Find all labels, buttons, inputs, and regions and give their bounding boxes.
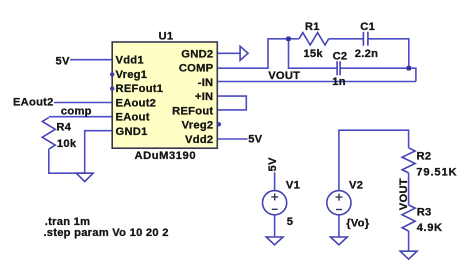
junction node COMP/R1/C2 bbox=[286, 37, 291, 42]
svg-text:.step param Vo 10 20 2: .step param Vo 10 20 2 bbox=[43, 227, 168, 239]
wire R4 bottom to ground bbox=[49, 149, 85, 173]
svg-text:VOUT: VOUT bbox=[398, 178, 410, 210]
resistor R3 bbox=[402, 205, 415, 231]
svg-text:V2: V2 bbox=[349, 180, 363, 192]
open pin circle Vreg1 bbox=[110, 72, 114, 76]
svg-text:C2: C2 bbox=[333, 50, 348, 62]
ground under V2 bbox=[331, 237, 348, 245]
svg-text:79.51K: 79.51K bbox=[416, 167, 457, 179]
wire R1 lead left bbox=[289, 38, 300, 40]
wire GND1 to ground bbox=[85, 131, 113, 174]
plus sign V1 bbox=[271, 193, 278, 200]
svg-text:Vdd1: Vdd1 bbox=[116, 55, 144, 67]
open pin circle REFout1 bbox=[110, 86, 114, 90]
svg-text:EAout: EAout bbox=[116, 112, 150, 124]
svg-text:-IN: -IN bbox=[198, 77, 214, 89]
svg-text:4.9K: 4.9K bbox=[417, 222, 443, 234]
ground under R3 bbox=[400, 251, 417, 259]
wire comp net EAout pin to R4 top bbox=[49, 116, 112, 118]
svg-text:EAout2: EAout2 bbox=[116, 97, 157, 109]
wire VOUT rail to -IN bbox=[217, 81, 416, 83]
wire Vdd2 to 5V label bbox=[217, 138, 247, 140]
minus sign V1 bbox=[272, 208, 278, 210]
svg-text:Vdd2: Vdd2 bbox=[185, 134, 213, 146]
svg-text:ADuM3190: ADuM3190 bbox=[135, 150, 197, 162]
svg-text:Vreg1: Vreg1 bbox=[116, 69, 148, 81]
wire V2 top riser and rail to R2 bbox=[339, 130, 409, 190]
capacitor C1 bbox=[363, 32, 368, 46]
wire R3 to ground bbox=[408, 231, 410, 251]
wire V2 bottom to ground bbox=[338, 215, 340, 237]
wire COMP to top rail bbox=[217, 39, 288, 68]
svg-text:C1: C1 bbox=[360, 21, 375, 33]
svg-text:5V: 5V bbox=[248, 134, 262, 146]
op-amp U1 ADuM3190 body bbox=[112, 42, 217, 148]
wire C2 right to junction bbox=[340, 67, 409, 69]
svg-text:R2: R2 bbox=[417, 150, 432, 162]
svg-text:U1: U1 bbox=[159, 31, 174, 43]
output port arrow at GND2 bbox=[240, 46, 248, 60]
svg-text:R3: R3 bbox=[417, 207, 432, 219]
wire C1 to right riser bbox=[368, 39, 409, 68]
svg-text:VOUT: VOUT bbox=[268, 70, 300, 82]
svg-text:REFout1: REFout1 bbox=[116, 83, 164, 95]
wire +IN to REFout loop bbox=[217, 96, 246, 110]
svg-text:5V: 5V bbox=[56, 55, 70, 67]
svg-text:EAout2: EAout2 bbox=[13, 96, 54, 108]
wire V1 bottom to ground bbox=[274, 215, 276, 237]
junction node C1/C2/VOUT bbox=[407, 66, 412, 71]
plus sign V2 bbox=[336, 194, 343, 201]
ground under R4/GND1 bbox=[76, 173, 93, 181]
svg-text:COMP: COMP bbox=[179, 63, 214, 75]
voltage source V2 bbox=[327, 191, 351, 215]
svg-text:Vreg2: Vreg2 bbox=[182, 120, 214, 132]
wire V1 top stub bbox=[274, 172, 276, 190]
svg-text:15k: 15k bbox=[303, 48, 323, 60]
resistor R1 bbox=[299, 33, 329, 45]
wire jog junction to VOUT rail bbox=[409, 68, 416, 81]
open pin circle Vreg2 bbox=[217, 122, 221, 126]
svg-text:GND2: GND2 bbox=[181, 48, 213, 60]
svg-text:10k: 10k bbox=[57, 138, 77, 150]
capacitor C2 bbox=[337, 61, 340, 75]
wire R1 to C1 bbox=[329, 38, 364, 40]
wire EAout2 label to pin bbox=[54, 102, 112, 104]
minus sign V2 bbox=[336, 209, 342, 211]
wire 5V to Vdd1 bbox=[70, 59, 112, 61]
wire C2 branch left bbox=[289, 39, 338, 68]
ground under V1 bbox=[266, 237, 283, 245]
voltage source V1 bbox=[263, 191, 287, 215]
svg-text:GND1: GND1 bbox=[116, 126, 148, 138]
svg-text:1n: 1n bbox=[332, 76, 346, 88]
resistor R4 bbox=[42, 118, 55, 150]
svg-text:2.2n: 2.2n bbox=[355, 48, 378, 60]
svg-text:R1: R1 bbox=[305, 21, 320, 33]
svg-text:5V: 5V bbox=[267, 157, 279, 171]
svg-text:5: 5 bbox=[287, 216, 293, 228]
svg-text:{Vo}: {Vo} bbox=[346, 218, 370, 230]
resistor R2 bbox=[402, 148, 415, 173]
wire R2 to R3 bbox=[408, 173, 410, 205]
wire GND2 to port arrow bbox=[217, 52, 240, 54]
svg-text:REFout: REFout bbox=[172, 105, 213, 117]
svg-text:V1: V1 bbox=[286, 179, 300, 191]
svg-text:R4: R4 bbox=[56, 122, 71, 134]
svg-text:+IN: +IN bbox=[195, 91, 213, 103]
svg-text:comp: comp bbox=[61, 106, 92, 118]
